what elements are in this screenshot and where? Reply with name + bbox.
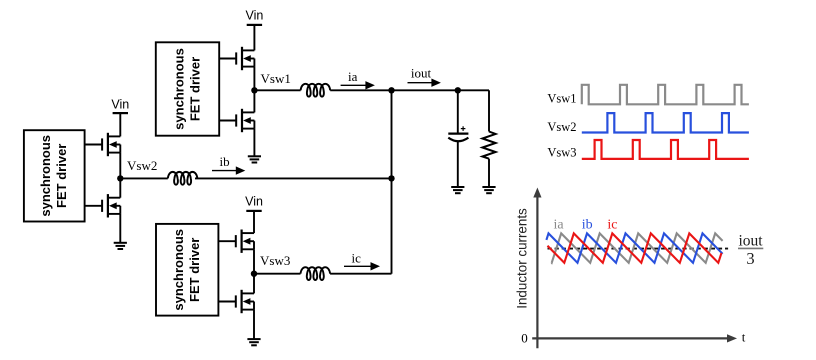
wire Vin to Q2H drain [119, 113, 121, 136]
ground phase 1 [248, 156, 261, 162]
svg-text:0: 0 [521, 330, 528, 345]
svg-text:ia: ia [348, 69, 358, 84]
svg-text:ic: ic [607, 218, 617, 233]
wire Vsw1 to L1 [254, 89, 300, 91]
U3 synchronous FET driver box [156, 224, 218, 316]
phase 2 Vin supply terminal [111, 98, 129, 114]
svg-text:Vsw1: Vsw1 [547, 92, 576, 106]
svg-text:synchronous: synchronous [38, 135, 53, 217]
svg-text:Vsw3: Vsw3 [547, 145, 576, 159]
waveform inductor current ic (red) [548, 233, 722, 262]
junction node Vsw3 [251, 271, 257, 277]
svg-text:iout: iout [738, 232, 763, 249]
svg-text:ib: ib [220, 154, 230, 169]
wire capacitor C1 to ground [457, 141, 459, 187]
waveform inductor current ia (gray) [552, 233, 723, 262]
wire Q2H source to Vsw2 node [119, 153, 121, 179]
svg-text:Vsw2: Vsw2 [127, 158, 157, 173]
wire Vin to Q1H drain [253, 25, 255, 51]
waveform Vsw2 (blue) [582, 113, 749, 132]
wire L1 to output bus [330, 89, 489, 91]
high-side MOSFET Q3H [218, 230, 254, 253]
wire Q3H source to Vsw3 node [253, 249, 255, 273]
wire Q2L source to ground [119, 214, 121, 243]
y axis [533, 188, 541, 349]
svg-text:Vin: Vin [245, 195, 263, 209]
x axis [532, 334, 737, 342]
wire Q3L source to ground [253, 310, 255, 340]
arrow iout [408, 79, 441, 87]
waveform inductor current ib (blue) [546, 233, 722, 262]
wire output node to capacitor C1 [457, 90, 459, 132]
svg-text:FET driver: FET driver [187, 238, 202, 302]
capacitor C1 (polarized) [448, 126, 468, 141]
phase 3 Vin supply terminal [245, 195, 263, 211]
arrow ic [344, 262, 380, 270]
svg-text:synchronous: synchronous [171, 48, 186, 130]
svg-text:ib: ib [582, 218, 593, 233]
svg-text:t: t [742, 330, 746, 345]
wire common vertical bus [391, 90, 393, 273]
junction node Vsw2 [117, 175, 123, 181]
wire output bus to resistor R1 [488, 90, 490, 131]
U1 synchronous FET driver box [156, 42, 219, 135]
junction bus middle [388, 175, 394, 181]
ground phase 2 [114, 243, 127, 249]
svg-text:ia: ia [554, 218, 565, 233]
wire L2 to common vertical bus [195, 177, 392, 179]
inductor L2 [168, 172, 198, 185]
wire resistor R1 to ground [488, 159, 490, 187]
svg-text:Inductor currents: Inductor currents [515, 208, 530, 309]
svg-text:Vin: Vin [111, 98, 129, 112]
svg-text:synchronous: synchronous [171, 229, 186, 311]
wire Vsw1 node to Q1L drain [253, 90, 255, 112]
junction node Vsw1 [251, 87, 257, 93]
svg-text:iout: iout [411, 66, 432, 81]
inductor L1 [301, 84, 331, 97]
junction bus top [388, 87, 394, 93]
high-side MOSFET Q1H [219, 47, 254, 70]
svg-text:Vin: Vin [245, 9, 263, 23]
junction output node [455, 87, 461, 93]
wire L3 to common vertical bus [330, 273, 391, 275]
dashed average line iout/3 [548, 248, 729, 250]
phase 1 Vin supply terminal [245, 9, 263, 25]
svg-text:Vsw3: Vsw3 [260, 253, 290, 268]
waveform Vsw1 (gray) [582, 85, 749, 105]
inductor L3 [301, 267, 331, 280]
waveform Vsw3 (red) [582, 140, 749, 159]
U2 synchronous FET driver box [24, 130, 85, 221]
wire Vsw3 to L3 [254, 273, 301, 275]
arrow ib [212, 166, 245, 174]
svg-text:Vsw1: Vsw1 [261, 71, 291, 86]
fraction label iout/3 [738, 232, 763, 268]
svg-text:ic: ic [352, 250, 362, 265]
wire Vsw3 node to Q3L drain [253, 274, 255, 294]
ground phase 3 [247, 339, 260, 345]
svg-text:FET driver: FET driver [187, 57, 202, 121]
resistor R1 (load) [482, 132, 495, 159]
low-side MOSFET Q3L [218, 290, 254, 313]
wire Vsw2 node to Q2L drain [119, 178, 121, 197]
wire Vsw2 to L2 [120, 177, 168, 179]
wire Q1L source to ground [253, 129, 255, 157]
low-side MOSFET Q2L [85, 194, 121, 217]
high-side MOSFET Q2H [85, 133, 121, 156]
ground capacitor [451, 187, 464, 193]
low-side MOSFET Q1L [219, 109, 254, 132]
wire Vin to Q3H drain [253, 211, 255, 233]
svg-text:3: 3 [746, 249, 754, 268]
wire Q1H source to Vsw1 node [253, 67, 255, 91]
ground resistor [482, 187, 495, 193]
svg-text:FET driver: FET driver [54, 144, 69, 208]
svg-text:Vsw2: Vsw2 [547, 120, 576, 134]
arrow ia [341, 81, 375, 89]
